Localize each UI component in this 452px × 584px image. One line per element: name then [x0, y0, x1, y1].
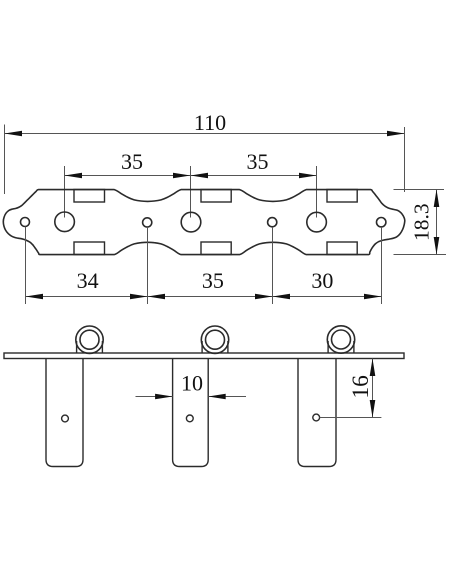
- slot bottom 2: [201, 242, 231, 255]
- svg-text:110: 110: [194, 110, 226, 135]
- dimension 10 arrow head left: [155, 394, 173, 400]
- dimension 34 arrow left: [26, 294, 44, 300]
- dimension 18.3 extension line bottom: [394, 254, 447, 256]
- dimension 10 arrow line left: [136, 396, 173, 398]
- post 3 hole: [313, 414, 320, 421]
- dimension 10 arrow line right: [208, 396, 246, 398]
- bushing 2 outer ring: [201, 326, 228, 353]
- bushing 1 outer ring: [76, 326, 103, 353]
- dimension 18.3 extension line top: [394, 189, 445, 191]
- leader line screw hole right: [381, 227, 383, 304]
- post 2: [173, 359, 209, 467]
- svg-text:16: 16: [348, 375, 374, 399]
- screw hole right: [377, 218, 386, 227]
- dimension 110 line: [5, 133, 405, 135]
- slot top 1: [74, 190, 105, 203]
- leader line mount hole 1: [147, 227, 149, 304]
- post 2 hole: [186, 415, 193, 422]
- dimension 34 arrow right: [130, 294, 148, 300]
- bushing 1 collar: [77, 341, 103, 353]
- svg-text:18.3: 18.3: [410, 203, 434, 241]
- dimension 110 extension line right: [404, 127, 406, 192]
- dimension 35 extension line (hole 2): [190, 166, 192, 218]
- dimension 35a arrow left: [65, 173, 83, 179]
- side view base plate bar: [4, 353, 404, 359]
- screw hole left: [21, 218, 30, 227]
- dimension 30 arrow left: [273, 294, 291, 300]
- post 1: [46, 359, 83, 467]
- dimension 35c arrow left: [148, 294, 166, 300]
- dimension 16 arrow bottom: [370, 400, 376, 418]
- tuner hole 3: [307, 212, 327, 232]
- bushing 3 outer ring: [327, 326, 354, 353]
- dimension 35b arrow right: [299, 173, 317, 179]
- dimension 110 arrow left: [5, 131, 23, 137]
- svg-text:35: 35: [121, 149, 143, 174]
- leader line mount hole 2: [272, 227, 274, 304]
- dimension 10 arrow head right: [208, 394, 226, 400]
- dimension 18.3 line: [436, 190, 438, 255]
- dimension 16 leader from post 3 hole: [320, 417, 382, 419]
- dimension 35c arrow right: [255, 294, 273, 300]
- mount hole 1: [143, 218, 152, 227]
- dimension 35a arrow middle-left: [173, 173, 191, 179]
- dimension 110 arrow right: [387, 131, 405, 137]
- bushing 2 inner ring: [206, 330, 225, 349]
- dimension 34/35/30 line: [26, 296, 382, 298]
- post 1 hole: [62, 415, 69, 422]
- dimension 30 arrow right: [364, 294, 382, 300]
- bushing 1 inner ring: [80, 330, 99, 349]
- dimension 18.3 arrow bottom: [434, 237, 440, 255]
- slot bottom 3: [327, 242, 357, 255]
- bushing 3 inner ring: [332, 330, 351, 349]
- dimension 35a extension line (hole 1): [64, 166, 66, 218]
- tuner hole 1: [55, 212, 75, 232]
- dimension 35b arrow middle-right: [191, 173, 209, 179]
- svg-text:30: 30: [311, 268, 333, 293]
- dimension 18.3 arrow top: [434, 190, 440, 208]
- tuner hole 2: [181, 212, 201, 232]
- svg-text:35: 35: [202, 268, 224, 293]
- dimension 35a line: [65, 175, 317, 177]
- svg-text:35: 35: [247, 149, 269, 174]
- slot top 2: [201, 190, 231, 203]
- svg-text:34: 34: [77, 268, 99, 293]
- dimension 16 arrow top: [370, 359, 376, 377]
- bushing 3 collar: [328, 341, 354, 353]
- mount hole 2: [268, 218, 277, 227]
- bushing 2 collar: [202, 341, 228, 353]
- dimension 16 line: [372, 359, 374, 418]
- leader line screw hole left: [25, 227, 27, 305]
- post 3: [298, 359, 336, 467]
- svg-text:10: 10: [181, 371, 203, 396]
- dimension 110 extension line left: [4, 125, 6, 195]
- dimension 35b extension line (hole 3): [316, 166, 318, 218]
- slot bottom 1: [74, 242, 105, 255]
- slot top 3: [327, 190, 357, 203]
- plate outline (top view): [3, 190, 405, 255]
